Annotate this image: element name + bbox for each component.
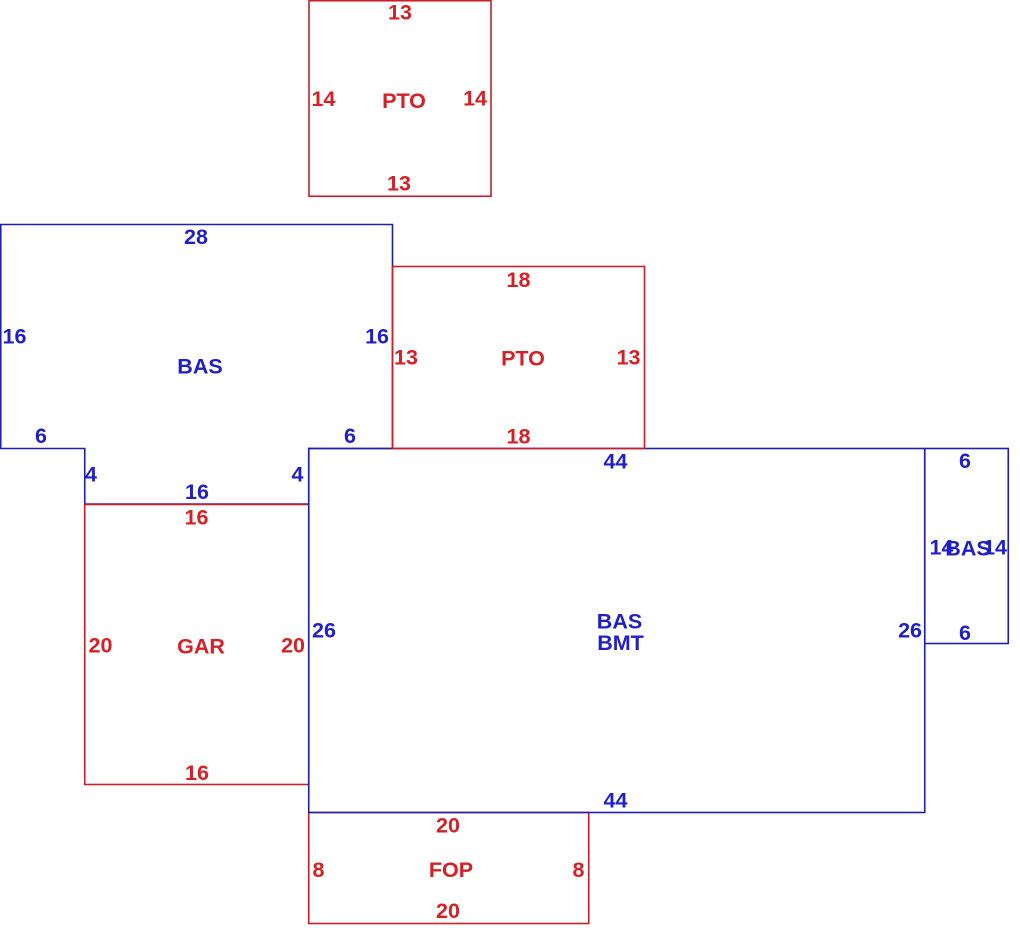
svg-text:BAS: BAS — [597, 610, 642, 634]
svg-text:GAR: GAR — [177, 635, 225, 659]
svg-text:20: 20 — [436, 899, 460, 923]
svg-text:13: 13 — [388, 1, 412, 25]
svg-text:6: 6 — [344, 424, 356, 448]
svg-text:8: 8 — [313, 858, 325, 882]
svg-text:4: 4 — [292, 463, 304, 487]
svg-text:14: 14 — [312, 87, 336, 111]
svg-text:44: 44 — [604, 450, 628, 474]
svg-text:13: 13 — [617, 346, 641, 370]
svg-text:FOP: FOP — [429, 858, 473, 882]
svg-text:20: 20 — [89, 634, 113, 658]
svg-text:PTO: PTO — [501, 347, 545, 371]
svg-text:14: 14 — [463, 87, 487, 111]
svg-text:26: 26 — [898, 619, 922, 643]
svg-text:26: 26 — [312, 619, 336, 643]
svg-text:16: 16 — [3, 325, 27, 349]
svg-text:28: 28 — [184, 225, 208, 249]
svg-text:44: 44 — [604, 789, 628, 813]
svg-text:BAS: BAS — [177, 355, 222, 379]
svg-text:20: 20 — [281, 634, 305, 658]
svg-text:20: 20 — [436, 814, 460, 838]
svg-text:18: 18 — [507, 268, 531, 292]
svg-text:16: 16 — [365, 325, 389, 349]
svg-text:16: 16 — [185, 761, 209, 785]
svg-text:6: 6 — [959, 449, 971, 473]
svg-text:14: 14 — [983, 536, 1007, 560]
svg-text:6: 6 — [959, 621, 971, 645]
svg-text:BMT: BMT — [597, 631, 644, 655]
svg-text:4: 4 — [85, 463, 97, 487]
svg-text:16: 16 — [185, 480, 209, 504]
svg-text:8: 8 — [573, 858, 585, 882]
svg-text:18: 18 — [507, 425, 531, 449]
svg-text:16: 16 — [185, 506, 209, 530]
svg-text:13: 13 — [387, 172, 411, 196]
svg-text:13: 13 — [394, 346, 418, 370]
svg-text:PTO: PTO — [382, 89, 426, 113]
svg-text:6: 6 — [35, 424, 47, 448]
